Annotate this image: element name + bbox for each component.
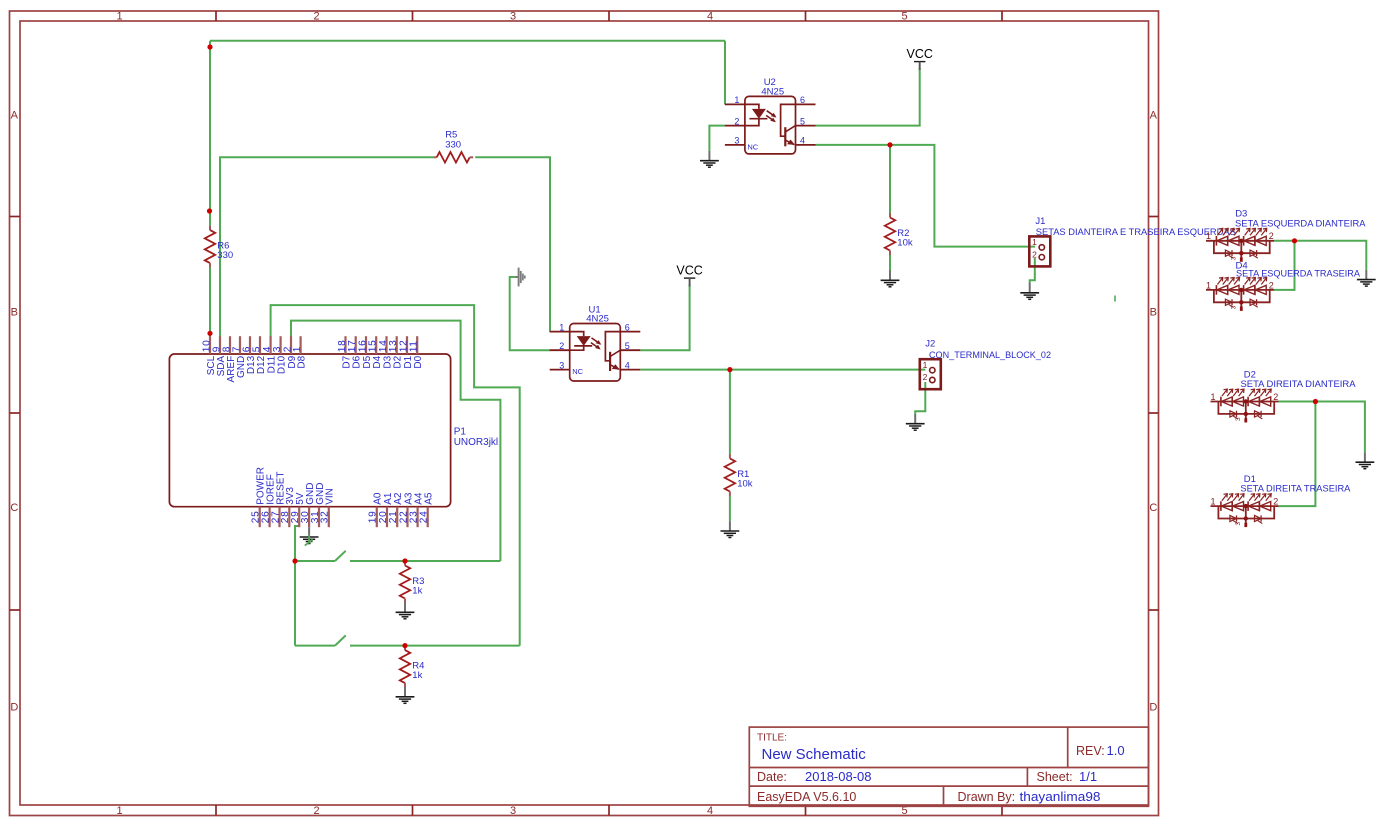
- svg-text:1: 1: [1210, 392, 1215, 402]
- wire: top net R6/U2 pin1: [210, 41, 725, 105]
- svg-text:3: 3: [1235, 522, 1242, 526]
- svg-text:B: B: [1150, 307, 1157, 319]
- ground (below R3): [396, 603, 415, 619]
- svg-text:5: 5: [625, 341, 630, 351]
- svg-text:4: 4: [707, 11, 713, 23]
- junction (S1 / R3): [402, 558, 407, 563]
- U2 pin numbers: [734, 95, 805, 146]
- svg-text:330: 330: [445, 139, 461, 150]
- D3 pin numbers: [1206, 231, 1274, 241]
- svg-text:3: 3: [272, 346, 283, 352]
- wire: D3 pin 2 to ground: [1274, 241, 1366, 270]
- svg-text:1: 1: [923, 360, 928, 370]
- P1 pin stubs: [210, 336, 428, 527]
- svg-text:New Schematic: New Schematic: [762, 746, 867, 763]
- resistor R4: [400, 646, 425, 688]
- svg-text:1: 1: [734, 95, 739, 105]
- wire: node to R1: [729, 370, 731, 454]
- svg-text:1/1: 1/1: [1079, 769, 1097, 784]
- svg-text:SETA DIREITA TRASEIRA: SETA DIREITA TRASEIRA: [1240, 484, 1351, 495]
- svg-text:4: 4: [800, 136, 805, 146]
- svg-text:1: 1: [116, 11, 122, 23]
- wire: U1 pin 2 to gray flag: [510, 277, 550, 350]
- optocoupler U1 body: [550, 324, 641, 382]
- svg-text:B: B: [11, 307, 18, 319]
- svg-text:2018-08-08: 2018-08-08: [805, 769, 872, 784]
- gray ground flag (U1 pin 2): [515, 268, 525, 287]
- wire: R6 upper rail: [209, 41, 211, 226]
- ground (below R4): [396, 687, 415, 703]
- wire: P1 pin 9 to R5 left: [220, 157, 433, 336]
- svg-text:A: A: [11, 110, 19, 122]
- wire: P1 D9 to switch 1: [291, 321, 500, 561]
- svg-text:3: 3: [734, 136, 739, 146]
- D1 pin numbers: [1210, 497, 1278, 507]
- LED cluster D4 labels: [1236, 260, 1361, 279]
- P1 reference labels: [454, 427, 498, 448]
- svg-text:VCC: VCC: [906, 47, 932, 61]
- svg-text:NC: NC: [747, 143, 758, 152]
- wire: R1 to ground: [729, 496, 731, 521]
- svg-text:1: 1: [292, 346, 303, 352]
- op-amp U1 labels: [586, 304, 609, 324]
- svg-text:D: D: [10, 702, 18, 714]
- wire: VCC to U2 pin 5: [815, 68, 919, 126]
- ground (below J2): [906, 414, 925, 430]
- switch S1 (to R3): [295, 551, 500, 561]
- ground (U2 pin 2): [700, 151, 719, 167]
- resistor R3: [400, 561, 425, 603]
- MCU P1 UNOR3jkl body: [169, 354, 450, 507]
- wire: J1 pin 2 to ground: [1030, 258, 1035, 283]
- svg-text:2: 2: [1273, 392, 1278, 402]
- svg-text:4: 4: [625, 360, 630, 370]
- D4 pin numbers: [1206, 280, 1274, 290]
- svg-text:24: 24: [419, 511, 430, 524]
- wire: D3 node down to D4 pin 2: [1274, 241, 1295, 290]
- wire: D2 node down to D1 pin 2: [1279, 402, 1316, 507]
- svg-text:A5: A5: [424, 492, 435, 505]
- svg-text:2: 2: [559, 341, 564, 351]
- wire: P1 D11 to switch 2: [271, 305, 520, 645]
- svg-text:2: 2: [313, 11, 319, 23]
- connector J1 body: [1029, 236, 1050, 266]
- svg-text:NC: NC: [572, 367, 583, 376]
- svg-text:SETA ESQUERDA DIANTEIRA: SETA ESQUERDA DIANTEIRA: [1235, 218, 1366, 229]
- svg-text:Drawn By:: Drawn By:: [958, 790, 1016, 804]
- svg-text:2: 2: [1032, 249, 1037, 259]
- svg-text:10k: 10k: [897, 237, 913, 248]
- svg-text:1: 1: [116, 805, 122, 817]
- LED cluster D1 labels: [1240, 474, 1351, 495]
- junction (S2 / R4): [402, 643, 407, 648]
- stray green mark: [1114, 296, 1116, 302]
- svg-text:3: 3: [1235, 417, 1242, 421]
- ground (right of D2): [1356, 452, 1375, 468]
- switch S2 (to R4): [295, 635, 520, 645]
- resistor R5: [433, 130, 473, 163]
- svg-text:C: C: [1149, 502, 1157, 514]
- svg-text:REV:: REV:: [1076, 744, 1105, 758]
- svg-text:1k: 1k: [412, 670, 422, 681]
- svg-text:6: 6: [625, 322, 630, 332]
- VCC flag (U2): [906, 47, 932, 70]
- svg-text:6: 6: [800, 95, 805, 105]
- resistor R6: [205, 226, 233, 268]
- svg-text:1: 1: [1206, 231, 1211, 241]
- svg-text:D: D: [1149, 702, 1157, 714]
- svg-text:5: 5: [251, 346, 262, 352]
- P1 pin names: [206, 355, 435, 504]
- connector J1 labels: [1035, 216, 1235, 238]
- ground (P1 GND pin 30): [300, 527, 319, 543]
- wire: U1 pin 4 to J2 pin 1: [640, 369, 925, 371]
- wire: VCC to U1 pin 5: [640, 285, 689, 351]
- svg-text:4: 4: [707, 805, 713, 817]
- ground (below R2): [881, 271, 900, 287]
- svg-text:2: 2: [313, 805, 319, 817]
- svg-text:Sheet:: Sheet:: [1037, 770, 1073, 784]
- LED cluster D2 body: [1211, 389, 1279, 422]
- svg-text:D0: D0: [413, 355, 424, 368]
- svg-text:1.0: 1.0: [1107, 743, 1125, 758]
- wire: U2 pin 2 to ground: [709, 126, 725, 151]
- wire: R5 right to U1 pin 1: [475, 157, 550, 331]
- svg-text:3: 3: [559, 360, 564, 370]
- svg-text:32: 32: [320, 511, 331, 524]
- D2 pin numbers: [1210, 392, 1278, 402]
- svg-text:1: 1: [559, 322, 564, 332]
- junction (top rail): [207, 44, 212, 49]
- wire: P1 5V rail down to switches: [295, 526, 299, 646]
- svg-text:3: 3: [510, 11, 516, 23]
- junction (D2/D1 node): [1313, 399, 1318, 404]
- junction (R6 rail): [207, 208, 212, 213]
- svg-text:UNOR3jkl: UNOR3jkl: [454, 437, 498, 448]
- LED cluster D3 body: [1206, 228, 1274, 261]
- svg-text:2: 2: [1269, 280, 1274, 290]
- svg-text:thayanlima98: thayanlima98: [1020, 789, 1101, 804]
- junction (D3/D4 node): [1292, 238, 1297, 243]
- wire: R2 to ground: [889, 255, 891, 271]
- svg-text:D12: D12: [256, 355, 267, 374]
- svg-text:330: 330: [217, 250, 233, 261]
- svg-text:J1: J1: [1035, 216, 1045, 227]
- junction (P1 pin 10): [207, 331, 212, 336]
- junction (5V rail / S1): [292, 558, 297, 563]
- svg-text:5: 5: [800, 116, 805, 126]
- svg-text:TITLE:: TITLE:: [757, 733, 787, 744]
- ground (below J1): [1020, 283, 1039, 299]
- svg-text:D8: D8: [297, 355, 308, 368]
- svg-text:VIN: VIN: [325, 488, 336, 505]
- svg-text:C: C: [10, 502, 18, 514]
- LED cluster D2 labels: [1241, 369, 1357, 390]
- LED cluster D4 body: [1206, 278, 1274, 311]
- op-amp U2 labels: [761, 77, 784, 97]
- junction (U2 pin4 / R2): [887, 142, 892, 147]
- ground (right of D3): [1357, 270, 1376, 286]
- wire: R6 to P1 pin 10 (SCL): [209, 268, 211, 337]
- resistor R2: [885, 213, 913, 255]
- LED cluster D1 body: [1211, 494, 1279, 527]
- P1 pin numbers: [201, 340, 429, 524]
- svg-text:VCC: VCC: [676, 264, 702, 278]
- svg-text:D10: D10: [277, 355, 288, 374]
- svg-text:3: 3: [1231, 305, 1238, 309]
- wire: D2 pin 2 to ground: [1279, 402, 1365, 453]
- svg-text:11: 11: [409, 340, 420, 352]
- svg-text:5: 5: [901, 11, 907, 23]
- optocoupler U2 body: [725, 96, 816, 153]
- junction (U1 pin4 / R1): [727, 367, 732, 372]
- svg-text:2: 2: [734, 116, 739, 126]
- LED cluster D3 labels: [1235, 209, 1366, 230]
- svg-text:2: 2: [1273, 497, 1278, 507]
- title block: [749, 727, 1148, 806]
- wire: node to R2: [889, 145, 891, 213]
- svg-text:10k: 10k: [737, 478, 753, 489]
- wire: J2 pin 2 to ground: [915, 382, 925, 414]
- connector J2 labels: [925, 339, 1051, 361]
- svg-text:Date:: Date:: [757, 770, 787, 784]
- VCC flag (U1): [676, 264, 702, 287]
- U1 pin numbers: [559, 322, 630, 370]
- resistor R1: [725, 454, 753, 496]
- svg-text:1: 1: [1206, 280, 1211, 290]
- svg-text:SETA DIREITA DIANTEIRA: SETA DIREITA DIANTEIRA: [1241, 379, 1357, 390]
- title block text: [757, 733, 1125, 804]
- svg-text:1k: 1k: [412, 585, 422, 596]
- svg-text:2: 2: [923, 372, 928, 382]
- svg-text:2: 2: [1269, 231, 1274, 241]
- svg-text:A: A: [1150, 110, 1158, 122]
- connector J2 body: [920, 359, 941, 389]
- wire: U2 pin 4 to J1 pin 1: [815, 145, 1035, 247]
- svg-text:1: 1: [1032, 237, 1037, 247]
- svg-text:EasyEDA V5.6.10: EasyEDA V5.6.10: [757, 790, 856, 804]
- svg-text:CON_TERMINAL_BLOCK_02: CON_TERMINAL_BLOCK_02: [929, 350, 1051, 361]
- svg-text:3: 3: [510, 805, 516, 817]
- svg-text:1: 1: [1210, 497, 1215, 507]
- ground (below R1): [721, 521, 740, 537]
- svg-text:J2: J2: [925, 339, 935, 350]
- green net stub on P1 ground: [305, 535, 313, 546]
